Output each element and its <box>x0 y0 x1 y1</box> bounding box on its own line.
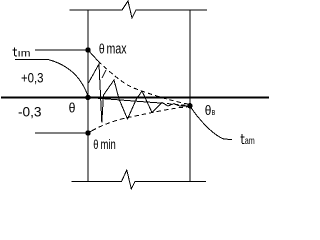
wall left surface vertical line <box>87 10 89 182</box>
horizontal mean temperature axis <box>1 97 269 99</box>
svg-text:min: min <box>101 136 116 152</box>
svg-text:-0,3: -0,3 <box>18 104 42 120</box>
svg-text:θ: θ <box>99 42 105 57</box>
wall right surface vertical line <box>189 10 191 182</box>
theta min dot <box>85 130 90 135</box>
label t vn bottom right <box>240 134 244 144</box>
theta min level line <box>35 132 88 134</box>
dashed wave fragment <box>102 70 106 78</box>
svg-text:θ: θ <box>93 137 98 152</box>
label t vn top left <box>13 48 18 57</box>
top boundary line with break symbol <box>70 1 208 18</box>
indoor air temperature curve tvn <box>15 60 88 98</box>
decaying temperature oscillation zigzag <box>88 64 190 123</box>
svg-text:am: am <box>245 136 255 147</box>
mean temperature line dashed end <box>160 103 190 106</box>
svg-text:ım: ım <box>18 48 31 60</box>
svg-text:θ: θ <box>69 99 76 115</box>
theta max dot <box>85 47 90 52</box>
lower envelope solid start <box>88 131 92 133</box>
mean temperature line through wall <box>88 98 160 104</box>
svg-text:max: max <box>107 42 128 58</box>
theta v dot on right surface <box>187 103 192 108</box>
lower envelope dashed <box>92 107 190 131</box>
svg-text:в: в <box>212 107 216 118</box>
theta mean dot <box>85 95 90 100</box>
svg-text:+0,3: +0,3 <box>21 70 44 86</box>
upper envelope dashed <box>98 61 190 105</box>
outdoor side temperature curve to tvn <box>190 106 232 140</box>
svg-text:θ: θ <box>205 102 212 118</box>
bottom boundary line with break symbol <box>72 170 207 189</box>
theta max level line <box>35 49 88 51</box>
upper envelope solid start <box>88 50 98 61</box>
